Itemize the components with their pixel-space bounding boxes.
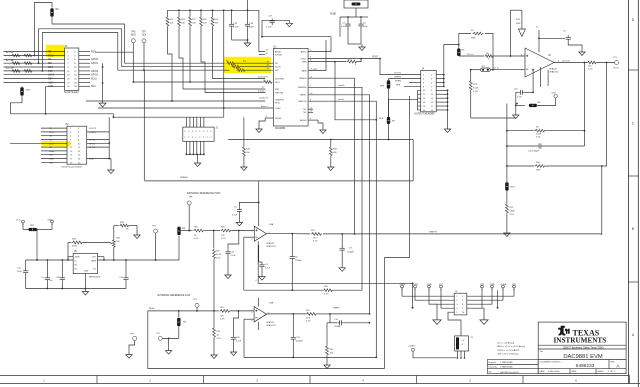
svg-text:10: 10 bbox=[462, 312, 464, 314]
pull-up rail IOVDD bbox=[168, 9, 259, 11]
wire left vertical 1 bbox=[33, 3, 35, 56]
op-amp U4A OPA2211 bbox=[254, 226, 266, 241]
svg-text:usbdac 14: usbdac 14 bbox=[259, 98, 269, 100]
svg-text:10K: 10K bbox=[333, 152, 337, 154]
resistor R8 0 bbox=[485, 55, 494, 58]
wire +5UA to J6 bbox=[497, 290, 499, 308]
resistor R24 2K 0.1% bbox=[213, 311, 215, 327]
ground below C1 C5 bbox=[348, 43, 361, 45]
inductor L1 supply filter bbox=[344, 0, 368, 8]
resistor R25 10K 0.1% bbox=[221, 229, 232, 232]
svg-text:RATE: RATE bbox=[572, 370, 578, 373]
wire aux row under J2 bbox=[11, 114, 114, 117]
engineer table bbox=[487, 360, 538, 374]
svg-text:Title: Title bbox=[540, 350, 544, 353]
svg-text:LDAC: LDAC bbox=[275, 107, 281, 110]
U4A feedback rail bbox=[244, 289, 323, 291]
J1 wires above bbox=[113, 116, 224, 127]
svg-text:VOUT: VOUT bbox=[372, 56, 379, 58]
svg-text:DAC9881 Rev A.Sch: DAC9881 Rev A.Sch bbox=[500, 371, 519, 374]
resistor R29 on SDO line bbox=[133, 81, 263, 83]
svg-text:0.1%: 0.1% bbox=[473, 91, 478, 93]
wire PDN from J2 bbox=[95, 51, 133, 53]
drawing frame right border bbox=[628, 0, 638, 387]
capacitor C21 2.2uF bbox=[228, 231, 239, 250]
jumper W8 bbox=[178, 236, 180, 260]
wire RFB feedback vertical bbox=[335, 62, 376, 120]
svg-text:VOUT: VOUT bbox=[300, 59, 307, 61]
svg-text:RFB: RFB bbox=[302, 62, 307, 64]
wire rail to U1 supply pins bbox=[259, 10, 265, 51]
svg-text:DAC9881: DAC9881 bbox=[275, 127, 286, 130]
svg-text:0.1%: 0.1% bbox=[216, 258, 221, 260]
svg-text:AVDD: AVDD bbox=[275, 51, 281, 54]
svg-text:OPA627IU: OPA627IU bbox=[549, 71, 559, 74]
svg-text:0.1%: 0.1% bbox=[510, 214, 515, 216]
wire top-left from R6 bbox=[34, 3, 52, 8]
ferrite bead R6 bbox=[50, 8, 53, 17]
svg-text:2.2uF: 2.2uF bbox=[236, 341, 242, 343]
J4 right pins lower wires to ground bbox=[436, 89, 451, 132]
wire L1 to AVDD rail bbox=[340, 8, 356, 17]
svg-text:File: File bbox=[489, 371, 492, 373]
capacitor C20 2.2uF bbox=[234, 311, 239, 335]
svg-text:A2_CMP: A2_CMP bbox=[6, 59, 15, 62]
svg-text:10K: 10K bbox=[116, 241, 120, 243]
svg-text:GPIO2: GPIO2 bbox=[91, 71, 99, 73]
resistor R22 95.3K 0.1% bbox=[213, 231, 215, 249]
resistor R62 6.04K 0.1% bbox=[507, 130, 534, 132]
wire vertical to LDAC area bbox=[223, 10, 225, 117]
U2 V- stub bbox=[540, 67, 542, 87]
svg-text:VREFL: VREFL bbox=[333, 308, 341, 310]
svg-text:9: 9 bbox=[462, 308, 463, 310]
svg-text:RCB: RCB bbox=[379, 118, 384, 120]
svg-text:1000pF: 1000pF bbox=[347, 251, 355, 253]
svg-text:6.04K: 6.04K bbox=[510, 211, 516, 213]
resistor R3 on SCLK line bbox=[122, 66, 225, 68]
capacitor C13 2200pF bbox=[292, 314, 294, 335]
svg-text:VREFHx: VREFHx bbox=[180, 177, 189, 179]
svg-text:10K: 10K bbox=[246, 152, 250, 154]
resistor R19 10K to ground bbox=[330, 139, 332, 141]
wire left vertical 3 SDI loop bbox=[42, 33, 117, 71]
svg-text:6: 6 bbox=[462, 296, 463, 298]
svg-text:GPIO1: GPIO1 bbox=[91, 63, 99, 65]
U1 pin number labels bbox=[258, 50, 318, 121]
svg-text:drdac 1: drdac 1 bbox=[261, 106, 269, 108]
svg-text:DNP: DNP bbox=[516, 23, 521, 25]
resistor R15 10K bbox=[200, 10, 202, 16]
svg-text:GND: GND bbox=[84, 271, 89, 273]
svg-text:OPA2211: OPA2211 bbox=[266, 242, 275, 245]
connector J6 bbox=[454, 291, 467, 315]
jumper W5 bbox=[515, 92, 517, 105]
transistor W10 bbox=[21, 85, 23, 88]
svg-text:C12 1000pF: C12 1000pF bbox=[528, 151, 540, 153]
svg-text:2: 2 bbox=[456, 300, 457, 302]
resistor R52 10K bbox=[326, 323, 328, 345]
U4B feedback rail bbox=[244, 356, 376, 358]
svg-text:0.1%: 0.1% bbox=[313, 241, 318, 243]
wire R20 to VOUT node bbox=[606, 63, 608, 167]
svg-text:Serial Header Bottom: Serial Header Bottom bbox=[61, 166, 82, 169]
svg-text:DGND: DGND bbox=[275, 118, 282, 120]
svg-text:IOVDD: IOVDD bbox=[275, 55, 282, 57]
svg-text:VREFL: VREFL bbox=[299, 95, 307, 97]
connector J1 bbox=[183, 127, 219, 141]
svg-text:VCC = +5V Analog: VCC = +5V Analog bbox=[497, 342, 514, 345]
highlight on R2 R3 R5 input resistors bbox=[224, 57, 271, 73]
resistor R23 49.9 0.1% bbox=[292, 233, 310, 235]
net labels right of J2 bbox=[91, 52, 99, 89]
svg-text:0.1%: 0.1% bbox=[221, 238, 226, 240]
svg-text:6.04K: 6.04K bbox=[536, 134, 542, 136]
AVDD rail wire bbox=[262, 36, 331, 38]
svg-text:AVDD = +2.7V to +5.5V Analog: AVDD = +2.7V to +5.5V Analog bbox=[497, 345, 525, 348]
svg-text:DAC9881 EVM: DAC9881 EVM bbox=[563, 354, 602, 360]
svg-text:0.1%: 0.1% bbox=[220, 318, 225, 320]
capacitor C18 0.1uF bbox=[61, 260, 63, 276]
resistor R10 10K bbox=[167, 10, 169, 16]
svg-text:VREFL: VREFL bbox=[395, 80, 403, 82]
svg-text:IOVDD = +1.7V to AVDD: IOVDD = +1.7V to AVDD bbox=[497, 349, 520, 352]
svg-text:AGND: AGND bbox=[300, 119, 307, 122]
resistor R17 10K bbox=[189, 10, 191, 16]
resistor R11 10K bbox=[178, 10, 180, 16]
jumper W4 bbox=[178, 311, 180, 317]
svg-text:0.1uF: 0.1uF bbox=[266, 27, 272, 29]
P2 left net labels bbox=[10, 128, 67, 164]
svg-text:U2 OUT: U2 OUT bbox=[562, 60, 571, 62]
svg-text:6498233: 6498233 bbox=[576, 363, 595, 369]
svg-text:DOCUMENT/CONTROL #: DOCUMENT/CONTROL # bbox=[540, 362, 563, 364]
capacitor C5 10uF bbox=[356, 16, 368, 18]
svg-text:1 OF 1: 1 OF 1 bbox=[608, 371, 615, 373]
capacitor C1 0.1uF bbox=[347, 17, 349, 22]
svg-text:2200pF: 2200pF bbox=[295, 260, 303, 262]
J1 wires below to ground bbox=[186, 141, 205, 166]
resistor R12 6.04K 0.1% bbox=[506, 191, 508, 203]
U4A V- wire bbox=[257, 241, 259, 283]
wire VREFHS pin down bbox=[308, 87, 362, 219]
U4A V+ wire bbox=[258, 181, 260, 226]
svg-text:NC: NC bbox=[303, 109, 307, 111]
svg-text:DNP: DNP bbox=[471, 38, 476, 40]
svg-text:VOUT1: VOUT1 bbox=[89, 128, 97, 130]
wire VREFH pin down bbox=[308, 78, 354, 234]
J6 bottom wires bbox=[448, 312, 461, 328]
svg-text:NC: NC bbox=[303, 112, 307, 114]
resistor R14 3.01K 0.1% bbox=[470, 70, 472, 80]
op-amp U2 OPA627 bbox=[525, 48, 554, 77]
net labels PD SCLK CS SDI column bbox=[46, 52, 65, 89]
U4B V- stub bbox=[258, 322, 260, 330]
svg-text:10uF: 10uF bbox=[363, 26, 368, 28]
svg-text:U4B: U4B bbox=[269, 303, 274, 305]
ground TP2 bbox=[168, 338, 170, 347]
svg-text:5: 5 bbox=[251, 312, 252, 314]
svg-text:0.1uF: 0.1uF bbox=[517, 97, 523, 99]
sensor DNP arrow bbox=[511, 9, 522, 11]
svg-text:3.01K: 3.01K bbox=[473, 88, 479, 90]
wire feedback left vertical bbox=[506, 104, 508, 167]
ground J6 left bbox=[429, 304, 437, 316]
jumper W7 bbox=[387, 117, 390, 124]
svg-text:EXTERNAL REFERENCE HIGH: EXTERNAL REFERENCE HIGH bbox=[187, 192, 221, 195]
svg-text:0.1uF: 0.1uF bbox=[232, 215, 238, 217]
svg-text:SDO: SDO bbox=[131, 35, 136, 37]
svg-text:1: 1 bbox=[456, 296, 457, 298]
title block border bbox=[538, 322, 626, 374]
svg-text:USB/EXT: USB/EXT bbox=[275, 99, 285, 101]
wire long vertical from TP7 area bbox=[143, 70, 145, 180]
connector J2 Serial Header bbox=[64, 45, 90, 94]
ground J6 right bbox=[482, 308, 484, 316]
svg-text:8: 8 bbox=[462, 304, 463, 306]
wire VSS to J6 bbox=[412, 283, 414, 307]
svg-text:xvrefhs: xvrefhs bbox=[338, 85, 344, 87]
capacitor C10 0.1uF bbox=[516, 91, 518, 93]
trimmer R33 10K bbox=[112, 239, 115, 248]
highlight on J2 signal names bbox=[46, 45, 65, 57]
svg-text:SHEET: SHEET bbox=[598, 371, 605, 373]
ground AGND of U1 bbox=[308, 119, 318, 121]
svg-text:B: B bbox=[632, 227, 634, 231]
op-amp U4B OPA2211 bbox=[254, 307, 267, 322]
J6 right wires bbox=[467, 289, 514, 308]
svg-text:2.2uF: 2.2uF bbox=[231, 255, 237, 257]
wire R14 to ground node bbox=[471, 117, 516, 119]
svg-text:U2 +In: U2 +In bbox=[467, 54, 474, 56]
jumper W12 bbox=[506, 166, 508, 182]
svg-text:4: 4 bbox=[456, 308, 457, 310]
P2 right wires bbox=[87, 117, 110, 160]
wire VREFL pin down bbox=[308, 95, 369, 314]
J2 unused pins chain to ground bbox=[102, 63, 104, 100]
svg-text:OPA627I: OPA627I bbox=[549, 68, 557, 71]
svg-text:VREFHS: VREFHS bbox=[298, 87, 307, 89]
svg-text:Drawn By: Drawn By bbox=[489, 365, 497, 368]
svg-text:SDIOSEL: SDIOSEL bbox=[275, 78, 285, 80]
capacitor C9 bbox=[567, 35, 569, 37]
ext ref high rail bbox=[179, 230, 193, 232]
resistor R21 10K 0.1% bbox=[220, 310, 231, 313]
U4A feedback bbox=[244, 236, 255, 238]
TI logo bbox=[558, 326, 570, 336]
svg-text:12500 TI Boulevard. Dallas, T: 12500 TI Boulevard. Dallas, Texas 75243 bbox=[562, 346, 604, 349]
IC U5 REF5050 bbox=[73, 251, 101, 279]
long rail mid 1 bbox=[228, 139, 413, 141]
svg-text:3: 3 bbox=[456, 304, 457, 306]
J4 left pin wires bbox=[389, 73, 421, 110]
resistor R18 10K bbox=[212, 10, 214, 16]
svg-text:0.1%: 0.1% bbox=[306, 320, 311, 322]
svg-text:LDAC: LDAC bbox=[48, 74, 54, 77]
ground below C10 bbox=[515, 105, 517, 112]
svg-text:7: 7 bbox=[462, 300, 463, 302]
jumper W1 on -In bbox=[471, 69, 481, 71]
ground DGND of U1 bbox=[265, 117, 273, 119]
svg-text:SDA: SDA bbox=[91, 85, 96, 88]
svg-text:TP6: TP6 bbox=[131, 32, 136, 34]
svg-text:A3_CMP: A3_CMP bbox=[6, 67, 15, 70]
resistor R2 on PD line bbox=[125, 62, 225, 64]
wire VOUT net bbox=[308, 58, 380, 60]
wire U1 AVDD right pin bbox=[308, 51, 331, 53]
svg-text:VOUT: VOUT bbox=[613, 68, 620, 70]
ground below R12 bbox=[506, 230, 508, 233]
svg-text:VREFH: VREFH bbox=[429, 231, 437, 233]
svg-text:EXTERNAL REFERENCE LOW: EXTERNAL REFERENCE LOW bbox=[158, 294, 192, 297]
jumper RK3 bbox=[388, 79, 390, 81]
svg-text:TP7: TP7 bbox=[142, 32, 147, 34]
capacitor C3 1uF bbox=[46, 260, 48, 276]
svg-text:OUTPUT HEADER: OUTPUT HEADER bbox=[414, 113, 435, 116]
svg-text:OPA2277U: OPA2277U bbox=[266, 245, 277, 248]
resistor R13 100 0.1% bbox=[587, 61, 597, 64]
wire W7 bottom to rail bbox=[388, 124, 390, 140]
J4 right pins upper wires bbox=[436, 45, 459, 88]
svg-text:2: 2 bbox=[252, 239, 253, 241]
resistor R5 on SDI line bbox=[118, 69, 230, 71]
svg-text:9-Mar-2009: 9-Mar-2009 bbox=[548, 370, 560, 373]
wire U2 +In bbox=[459, 55, 484, 57]
U4A output wire bbox=[267, 233, 293, 235]
power notes text block bbox=[497, 342, 525, 356]
highlight on P2 signal name bbox=[42, 141, 71, 146]
svg-text:VREFH: VREFH bbox=[299, 78, 307, 80]
svg-text:2200pF: 2200pF bbox=[296, 341, 304, 343]
svg-text:dacload 20: dacload 20 bbox=[258, 77, 269, 79]
resistor R1 0 on RFB bbox=[308, 61, 346, 63]
svg-text:DNP: DNP bbox=[536, 170, 541, 172]
ground below C15 C16 bbox=[232, 39, 248, 41]
U5 ground rail bbox=[84, 274, 86, 289]
svg-text:GAIN: GAIN bbox=[301, 69, 307, 72]
svg-text:0.1%: 0.1% bbox=[217, 338, 222, 340]
capacitor C15 0.1uF bbox=[231, 10, 233, 22]
svg-text:VSS = 0V to -5V Analog: VSS = 0V to -5V Analog bbox=[497, 352, 518, 355]
svg-text:0.1uF: 0.1uF bbox=[233, 27, 239, 29]
svg-text:10uF: 10uF bbox=[17, 271, 22, 273]
svg-text:4: 4 bbox=[256, 280, 257, 282]
ground right of R35 bbox=[136, 226, 138, 233]
resistor R18b 10K to ground bbox=[243, 117, 245, 146]
svg-text:Serial Header: Serial Header bbox=[64, 91, 79, 94]
ground below P2 bbox=[109, 158, 111, 160]
svg-text:drstsel 2: drstsel 2 bbox=[258, 90, 266, 93]
svg-text:REF5050ID: REF5050ID bbox=[89, 277, 101, 279]
resistor R31 2K 0.1% bbox=[193, 229, 204, 232]
wire big box VREFL loop bbox=[148, 311, 385, 369]
svg-text:470K: 470K bbox=[72, 246, 77, 248]
resistor R35 1K bbox=[113, 226, 115, 239]
input signal rows with series resistors bbox=[4, 51, 47, 82]
svg-text:0.1uF: 0.1uF bbox=[341, 26, 347, 28]
svg-text:DATE: DATE bbox=[540, 370, 546, 373]
NC stubs bbox=[308, 108, 313, 110]
svg-text:PDN: PDN bbox=[275, 102, 280, 104]
svg-text:RSTSEL: RSTSEL bbox=[275, 92, 284, 94]
wire W7 top to J4 bar bbox=[389, 99, 418, 117]
capacitor C8 1000pF bbox=[341, 234, 343, 246]
U4B feedback bbox=[244, 318, 254, 320]
wire GAIN stub bbox=[308, 70, 326, 72]
test point TP1 VOUT bbox=[615, 61, 619, 65]
capacitor C14 1000pF bbox=[330, 322, 337, 324]
resistor R34 470K bbox=[67, 242, 69, 260]
svg-text:SDO: SDO bbox=[275, 82, 280, 84]
svg-text:1000pF: 1000pF bbox=[334, 326, 342, 328]
wire J3 top bbox=[460, 328, 462, 336]
svg-text:SDA: SDA bbox=[89, 158, 94, 161]
wire LDAC row bbox=[98, 107, 273, 109]
svg-text:J. PARGUIAN: J. PARGUIAN bbox=[500, 361, 513, 364]
svg-text:0.1%: 0.1% bbox=[324, 294, 329, 296]
svg-text:0.1%: 0.1% bbox=[194, 238, 199, 240]
VSS rail wire bbox=[258, 282, 413, 284]
U5 output wire bbox=[98, 256, 104, 258]
wire VREFLS pin down bbox=[308, 101, 376, 357]
svg-text:AVDD: AVDD bbox=[301, 51, 307, 54]
wire C17 to rail and ground bbox=[262, 20, 272, 36]
wire box below J2 bbox=[45, 86, 47, 114]
capacitor C12 1000pF bbox=[507, 145, 537, 147]
resistor R7 DNP feedback bbox=[459, 34, 471, 45]
wires U5 left bbox=[26, 259, 73, 261]
wire REFin from J4 down bbox=[385, 96, 410, 369]
svg-text:5: 5 bbox=[456, 312, 457, 314]
wire R6 to PD net bbox=[52, 17, 125, 63]
connector J4 OUTPUT HEADER bbox=[414, 68, 436, 115]
connector J3 bbox=[455, 336, 474, 359]
svg-text:0.1%: 0.1% bbox=[588, 69, 593, 71]
wire -In to C10 bbox=[532, 70, 534, 93]
svg-text:SDI: SDI bbox=[142, 35, 146, 37]
U4B output wire bbox=[267, 313, 306, 315]
svg-text:TEMP: TEMP bbox=[91, 261, 97, 263]
U2 output wire bbox=[554, 62, 587, 64]
svg-text:95.3K: 95.3K bbox=[216, 254, 222, 256]
svg-text:SCLK: SCLK bbox=[91, 79, 97, 81]
wire sensor net vertical bbox=[510, 10, 512, 56]
svg-text:Engineer: Engineer bbox=[489, 361, 497, 364]
svg-text:REFin: REFin bbox=[149, 308, 156, 310]
U4B V+ stub bbox=[258, 298, 260, 307]
connector P2 Serial Header Bottom bbox=[61, 124, 86, 168]
power labels left of J6 bbox=[399, 283, 517, 290]
svg-text:A1_CMP: A1_CMP bbox=[6, 51, 15, 54]
J6 left wires bbox=[402, 289, 454, 309]
svg-text:GPIO0: GPIO0 bbox=[91, 59, 99, 61]
wire R20 node to VREFH bbox=[601, 166, 603, 235]
svg-text:10uF: 10uF bbox=[249, 27, 255, 29]
svg-text:RST: RST bbox=[275, 89, 280, 91]
svg-text:0.1%: 0.1% bbox=[536, 137, 541, 139]
resistor R9 bbox=[458, 45, 460, 49]
wire USBPDN row bbox=[86, 100, 265, 102]
wires pull-up resistors to control rows bbox=[168, 29, 173, 101]
svg-text:INSTRUMENTS: INSTRUMENTS bbox=[554, 337, 607, 345]
svg-text:GPIO3: GPIO3 bbox=[91, 75, 99, 77]
wire R62 to U2 out bbox=[584, 63, 586, 147]
capacitor C19 0.1uF bbox=[125, 260, 127, 276]
svg-text:TRIM: TRIM bbox=[75, 257, 80, 259]
svg-text:OPA2211: OPA2211 bbox=[266, 321, 275, 324]
ext ref low rail bbox=[148, 310, 219, 312]
resistor R20 DNP bbox=[507, 165, 534, 167]
